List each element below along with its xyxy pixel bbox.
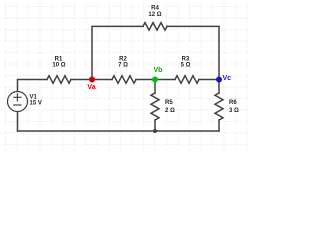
svg-text:R4: R4 — [151, 6, 159, 12]
wire node Vb to R3 — [155, 79, 175, 81]
resistor R6 — [215, 93, 223, 120]
svg-text:Vb: Vb — [154, 67, 163, 74]
wire R1 to node Va — [71, 79, 92, 81]
svg-text:R5: R5 — [165, 100, 173, 106]
svg-text:3 Ω: 3 Ω — [229, 108, 239, 114]
wire bottom rail — [18, 130, 220, 132]
wire node Va up and across to R4 — [92, 26, 143, 79]
wire R5 to bottom junction — [154, 120, 156, 131]
resistor R2 — [112, 76, 136, 84]
svg-text:10 Ω: 10 Ω — [52, 63, 65, 69]
svg-text:12 Ω: 12 Ω — [148, 12, 161, 18]
svg-text:5 Ω: 5 Ω — [181, 63, 191, 69]
wire R4 across and down to node Vc — [167, 26, 219, 79]
resistor R3 — [175, 76, 199, 84]
svg-text:7 Ω: 7 Ω — [118, 63, 128, 69]
svg-text:Vc: Vc — [223, 75, 232, 82]
wire R2 to node Vb — [136, 79, 155, 81]
wire node Vb down to R5 — [154, 80, 156, 94]
wire R6 to bottom rail — [218, 120, 220, 131]
svg-text:2 Ω: 2 Ω — [165, 108, 175, 114]
resistor R4 — [143, 23, 167, 31]
node Vc — [216, 77, 222, 83]
node Va — [89, 77, 95, 83]
svg-text:Va: Va — [87, 84, 95, 91]
svg-text:R6: R6 — [229, 100, 237, 106]
wire V1 minus terminal down to bottom rail — [17, 112, 19, 132]
wire node Va to R2 — [92, 79, 112, 81]
wire V1 plus terminal up to R1 — [18, 80, 48, 92]
resistor R5 — [151, 93, 159, 120]
junction R5 bottom — [153, 129, 157, 133]
node Vb — [152, 77, 158, 83]
voltage source V1 — [8, 92, 28, 112]
wire R3 to node Vc — [199, 79, 219, 81]
wire node Vc down to R6 — [218, 80, 220, 94]
svg-text:15 V: 15 V — [30, 101, 42, 107]
resistor R1 — [47, 76, 71, 84]
